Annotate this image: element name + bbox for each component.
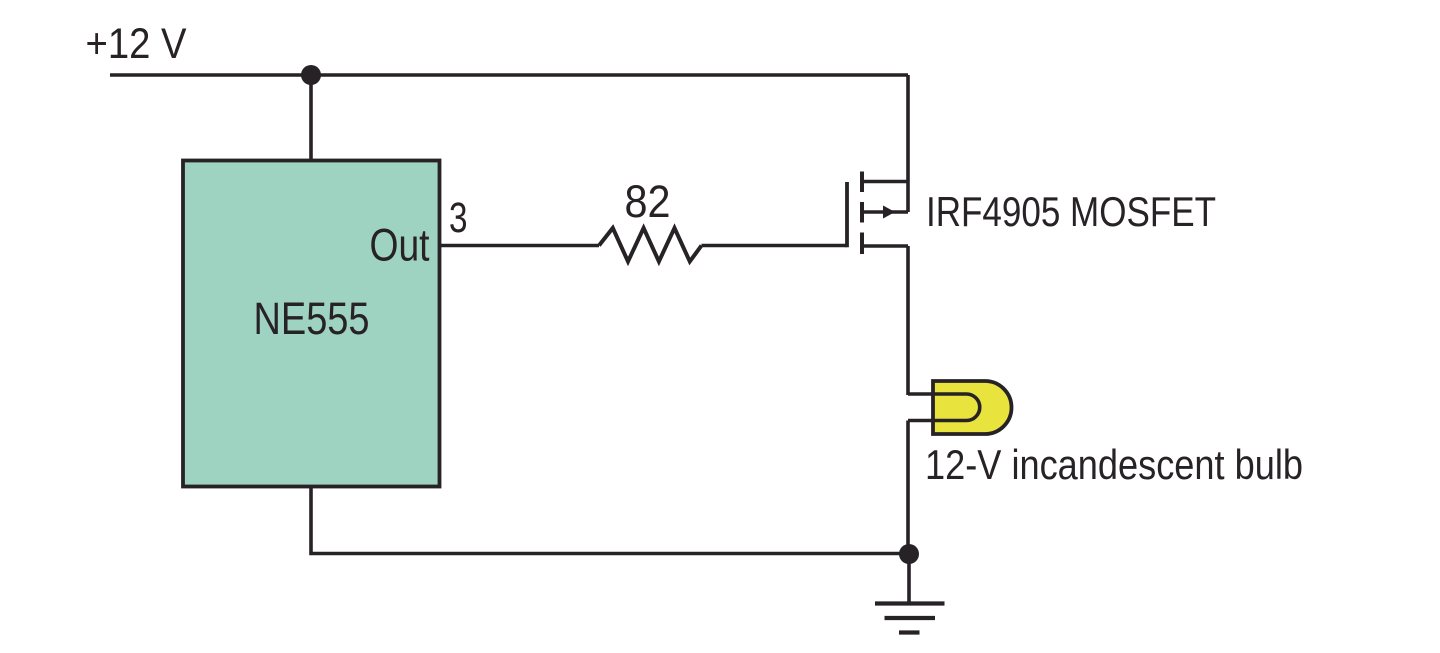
wire NE555 bottom to ground bus [311,487,909,554]
lamp DS1 bulb outer envelope [933,381,1012,434]
transistor Q1 body lead with arrow [862,210,908,214]
ground symbol bar 2 [885,616,936,620]
svg-text:3: 3 [449,194,468,242]
wire from MOSFET bottom lead down to bulb [906,246,910,395]
lamp DS1 filament / inner contour and terminals [908,394,980,421]
junction dot at +12V and NE555 supply [301,65,321,85]
transistor Q1 gate bar [845,182,849,247]
wire from +12V junction down to NE555 [309,75,313,162]
wire junction to ground symbol [907,554,911,603]
wire from bulb down to ground junction [906,421,910,554]
svg-text:12-V incandescent bulb: 12-V incandescent bulb [925,441,1303,488]
wire +12V rail horizontal [110,73,908,77]
svg-text:82: 82 [625,176,671,227]
transistor Q1 channel dash bottom [860,233,864,255]
svg-text:+12 V: +12 V [86,20,187,68]
transistor Q1 channel dash top [860,172,864,193]
ground symbol bar 1 [875,601,945,605]
transistor Q1 source lead (bottom) [862,244,908,248]
svg-text:IRF4905 MOSFET: IRF4905 MOSFET [926,188,1216,235]
resistor R1 82 ohm zigzag [599,228,702,262]
svg-text:NE555: NE555 [254,293,370,344]
transistor Q1 channel dash middle [860,202,864,223]
transistor Q1 drain lead (top) [862,180,908,184]
ground symbol bar 3 [899,630,920,634]
wire from pin 3 to resistor [440,244,600,248]
transistor Q1 body arrow head [883,206,895,219]
IC U1 NE555 body [183,161,440,487]
wire from resistor to MOSFET gate [702,244,848,248]
junction dot at ground bus [899,544,919,564]
wire +12V rail down to MOSFET top, and to body lead [906,75,910,212]
svg-text:Out: Out [370,220,430,271]
